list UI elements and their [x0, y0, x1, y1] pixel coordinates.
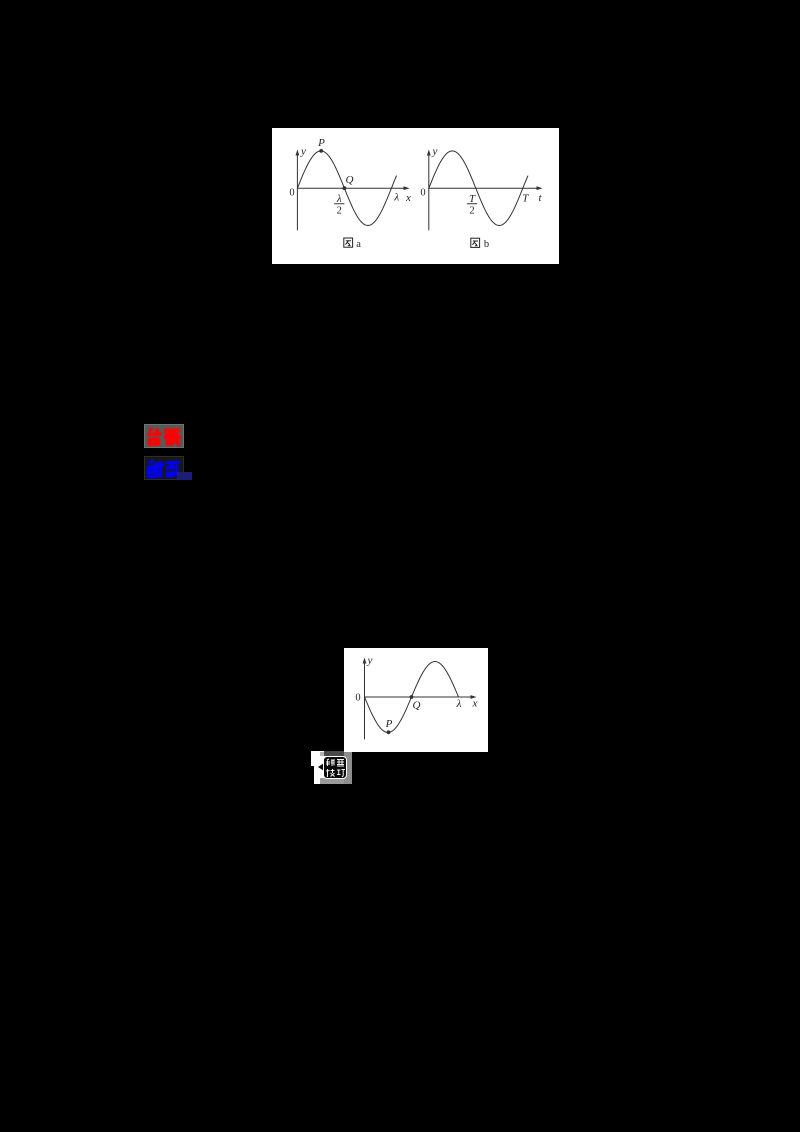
graph b x-axis arrowhead — [537, 186, 543, 190]
graph c y-axis — [364, 662, 366, 739]
red glyph 2 — [164, 429, 181, 446]
svg-text:2: 2 — [469, 206, 474, 217]
glyph 图 (caption b) — [471, 238, 480, 247]
svg-text:a: a — [356, 239, 361, 250]
svg-text:Q: Q — [346, 174, 354, 186]
graph c y-axis arrowhead — [363, 658, 367, 664]
blue glyph 2 — [159, 461, 181, 478]
badge black line left — [311, 766, 314, 784]
fraction bar T/2 — [467, 203, 477, 205]
figure panel 1 (two sine graphs 图a 图b) — [272, 128, 559, 264]
red glyph 1 — [148, 429, 162, 446]
svg-text:Q: Q — [413, 700, 421, 712]
graph a x-axis — [297, 187, 404, 189]
badge glyph 巧 — [337, 770, 345, 777]
badge glyph 技 — [326, 769, 335, 777]
point Q dot — [343, 186, 347, 190]
graph b y-axis — [428, 154, 430, 230]
point Q dot — [410, 695, 414, 699]
analysis label (blue 解析 box) — [144, 456, 184, 480]
svg-text:T: T — [522, 193, 529, 205]
badge body — [323, 756, 347, 779]
svg-text:P: P — [385, 718, 393, 730]
badge shadow bottom strip — [320, 778, 344, 784]
point P dot — [319, 149, 323, 153]
graph b y-axis arrowhead — [427, 150, 431, 156]
glyph 图 (caption a) — [344, 238, 353, 247]
graph c x-axis arrowhead — [471, 695, 477, 699]
svg-text:x: x — [472, 698, 478, 710]
svg-text:t: t — [538, 192, 542, 204]
navy underline block — [177, 472, 192, 480]
svg-text:0: 0 — [420, 188, 425, 199]
graph a sine curve — [297, 151, 396, 226]
svg-text:2: 2 — [337, 206, 342, 217]
graph b sine curve — [429, 151, 528, 226]
badge shadow top strip — [324, 751, 344, 756]
graph a x-axis arrowhead — [404, 186, 410, 190]
svg-text:x: x — [405, 192, 411, 204]
svg-text:P: P — [317, 137, 325, 149]
svg-text:y: y — [300, 146, 306, 158]
graph b x-axis — [429, 187, 538, 189]
graph c sine curve — [365, 662, 459, 733]
graph c x-axis — [365, 696, 472, 698]
svg-text:b: b — [484, 239, 489, 250]
fraction bar lambda/2 — [335, 203, 345, 205]
svg-text:y: y — [432, 146, 438, 158]
blue glyph 1 — [149, 461, 157, 478]
graph a y-axis arrowhead — [296, 150, 300, 156]
svg-text:0: 0 — [355, 693, 360, 704]
svg-text:T: T — [469, 193, 476, 205]
svg-text:λ: λ — [456, 698, 462, 710]
badge glyph 解 — [326, 759, 334, 766]
badge shadow right strip — [344, 752, 352, 784]
point P dot (trough) — [387, 730, 391, 734]
svg-text:y: y — [367, 655, 373, 667]
svg-text:λ: λ — [393, 192, 399, 204]
svg-text:λ: λ — [336, 193, 342, 205]
badge shadow top-left light — [320, 752, 324, 756]
badge glyph 题 — [337, 760, 344, 767]
svg-text:0: 0 — [289, 188, 294, 199]
badge 解题技巧 cluster — [311, 751, 352, 784]
graph a y-axis — [296, 154, 298, 230]
figure panel 2 (inverted sine graph) — [344, 648, 488, 752]
badge pointer triangle — [318, 763, 324, 771]
answer label (red 答案 box) — [144, 424, 184, 448]
